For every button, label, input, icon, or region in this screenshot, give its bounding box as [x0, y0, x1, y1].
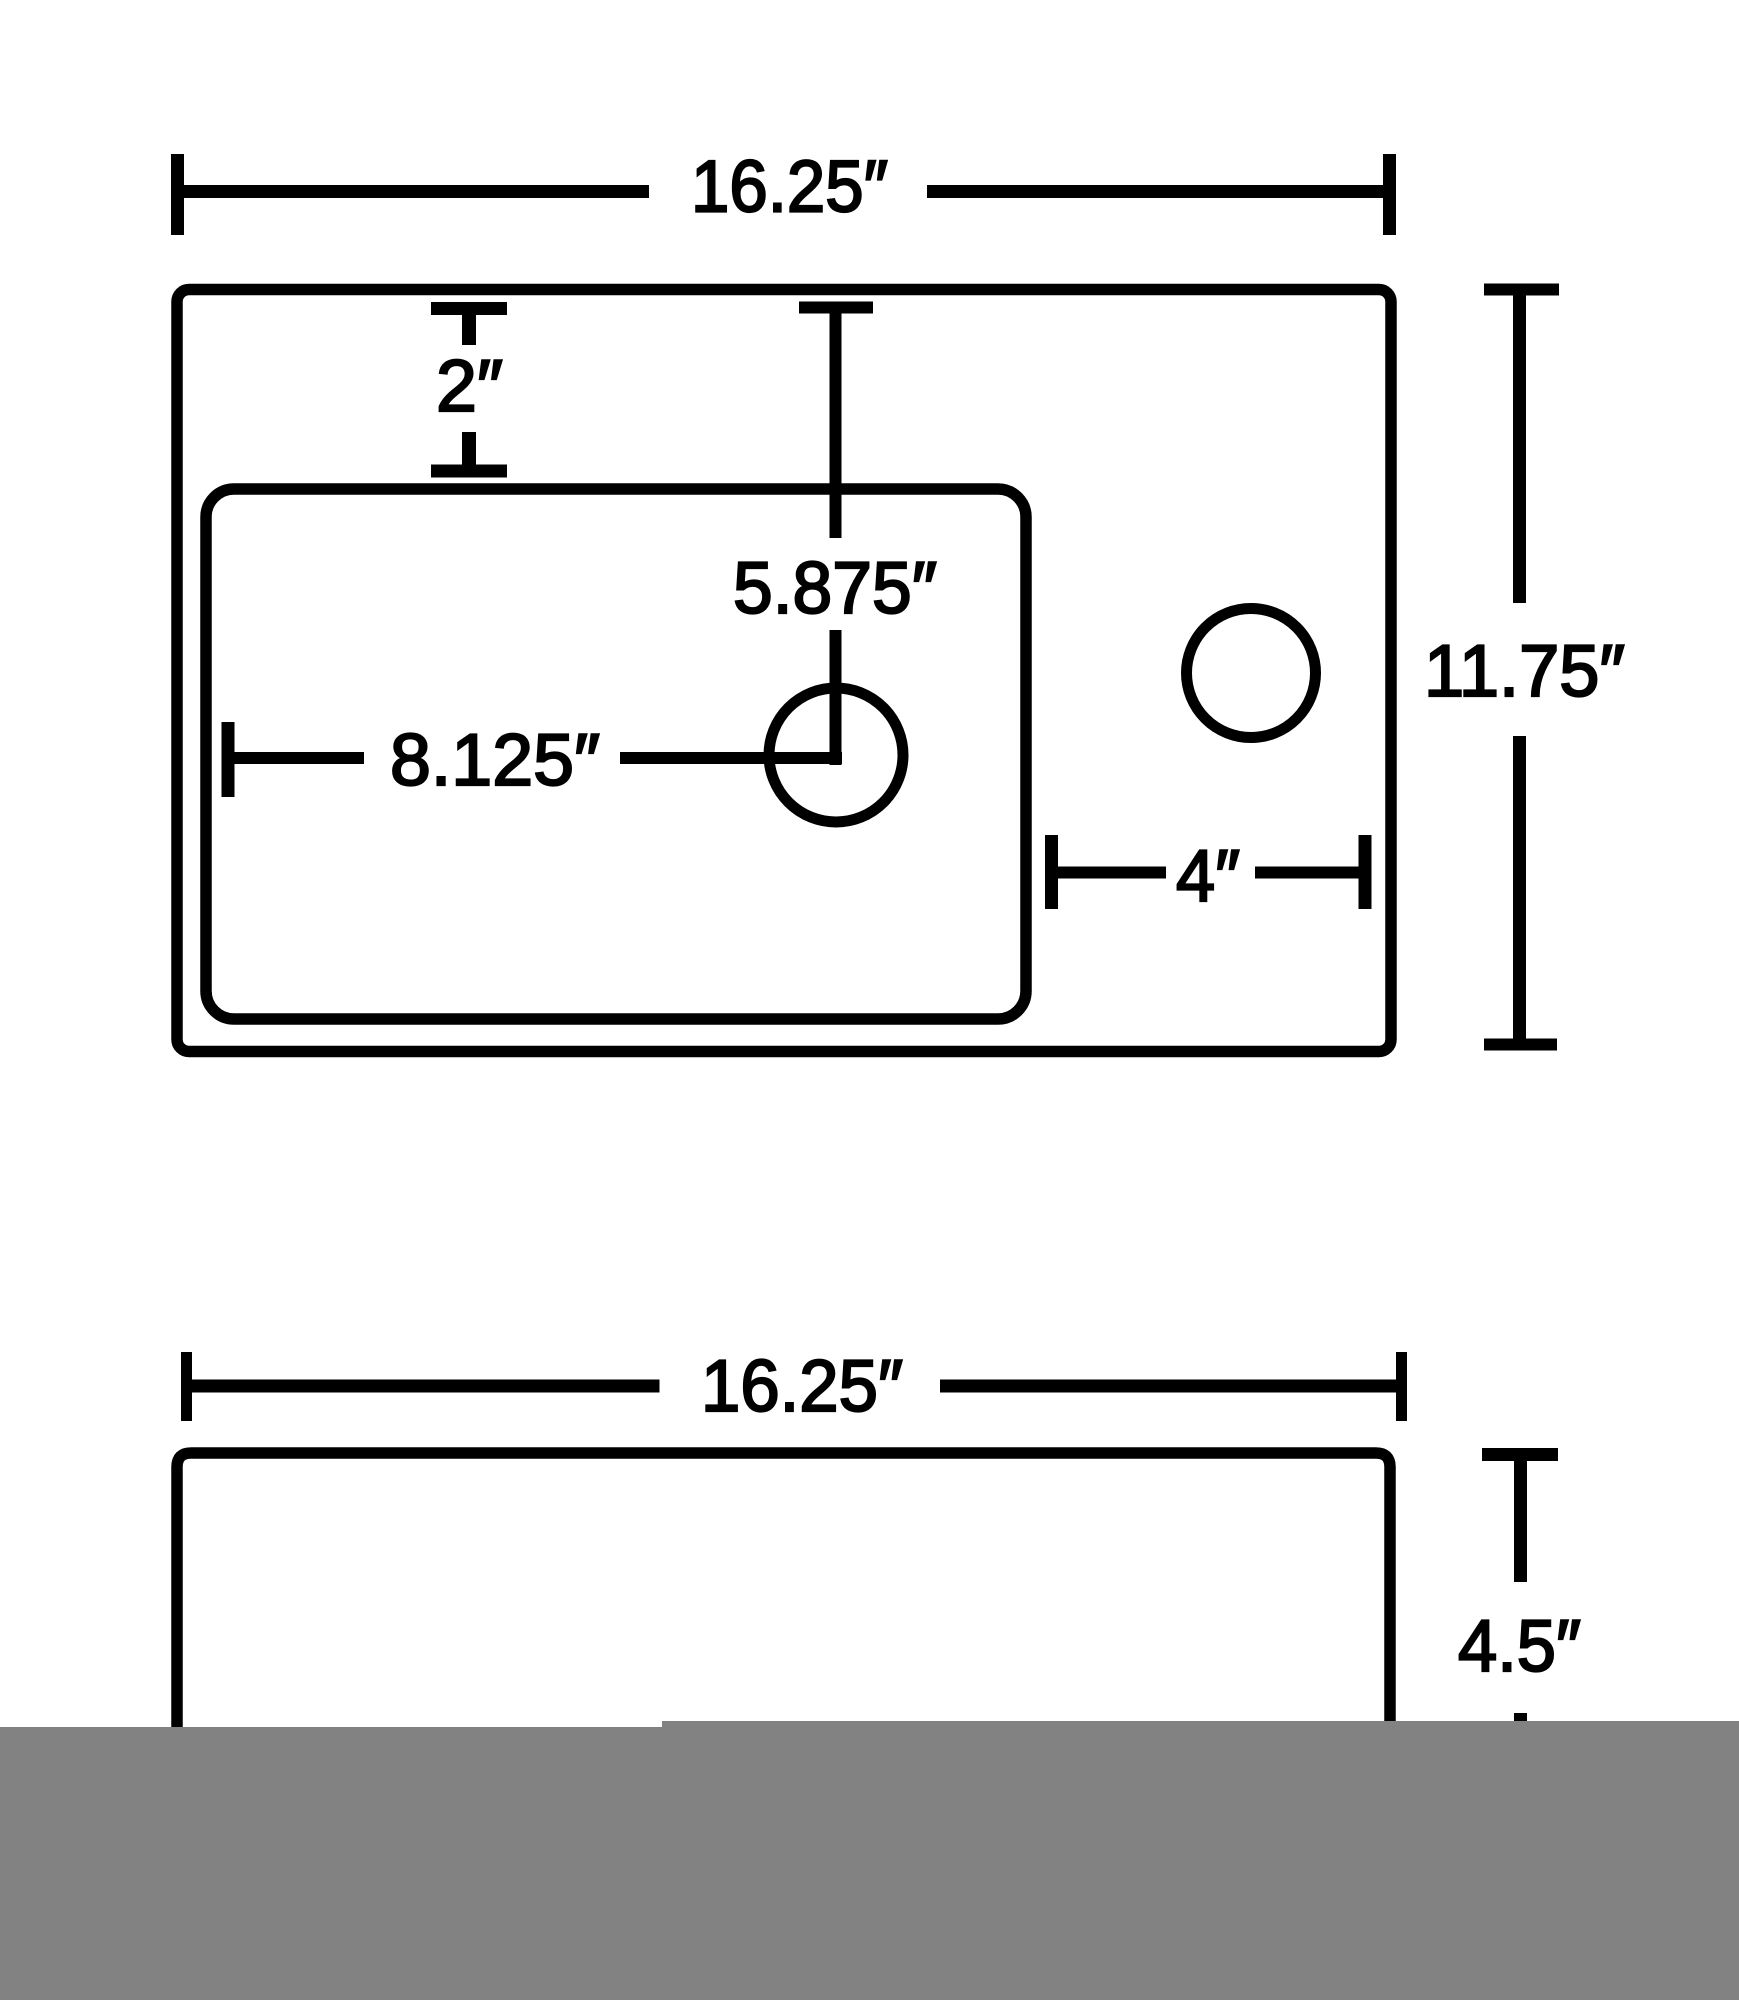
dimension 8.125in: line left segment [228, 752, 364, 764]
dimension 8.125in: line right segment to hole center [620, 752, 842, 764]
outer sink rim rectangle (top view) [177, 290, 1391, 1052]
svg-text:8.125″: 8.125″ [390, 720, 600, 801]
svg-text:2″: 2″ [436, 346, 503, 427]
dimension 11.75in: lower vertical line [1513, 736, 1526, 1045]
dimension 2in: bottom stub [462, 432, 476, 471]
label 11.75in [1424, 631, 1625, 712]
dimension 8.125in: left tick [222, 722, 235, 797]
dimension 16.25in top: left tick [171, 154, 184, 235]
dimension 5.875in: lower vertical line to hole center [830, 630, 842, 765]
dimension 11.75in: top tick bar [1484, 284, 1559, 296]
gray counter band left section [0, 1727, 662, 2000]
label 2in [436, 346, 503, 427]
label 4.5in [1458, 1606, 1581, 1687]
label 4in [1176, 836, 1240, 917]
dimension 2in: top tick bar [431, 302, 507, 315]
label 5.875in [733, 548, 937, 629]
svg-text:5.875″: 5.875″ [733, 548, 937, 629]
front view sink body rectangle [177, 1453, 1390, 1790]
dimension 4.5in: upper vertical line [1514, 1455, 1527, 1583]
dimension 16.25in bottom: left tick [181, 1352, 192, 1421]
gray counter band right section [662, 1721, 1739, 2000]
label 8.125in [390, 720, 600, 801]
faucet hole circle in basin [769, 688, 903, 822]
svg-text:16.25″: 16.25″ [701, 1346, 903, 1427]
dimension 4in: line right segment [1255, 867, 1365, 879]
label 16.25in top [691, 147, 888, 228]
dimension 4in: left tick [1045, 835, 1058, 909]
label 16.25in bottom [701, 1346, 903, 1427]
dimension 16.25in bottom: line right segment [940, 1380, 1402, 1393]
dimension 16.25in top: line right segment [927, 185, 1390, 198]
dimension 2in: bottom tick bar [431, 465, 507, 478]
faucet hole circle right deck [1187, 609, 1316, 738]
dimension 11.75in: bottom tick bar [1484, 1039, 1557, 1051]
dimension 16.25in top: right tick [1383, 154, 1396, 235]
svg-text:4.5″: 4.5″ [1458, 1606, 1581, 1687]
svg-text:11.75″: 11.75″ [1424, 631, 1625, 712]
dimension 2in: top stub [462, 309, 476, 346]
dimension 16.25in bottom: line left segment [187, 1380, 660, 1393]
dimension 11.75in: upper vertical line [1513, 290, 1526, 604]
svg-text:16.25″: 16.25″ [691, 147, 888, 228]
dimension 16.25in top: line left segment [178, 185, 650, 198]
svg-text:4″: 4″ [1176, 836, 1240, 917]
inner basin rounded rectangle [206, 489, 1026, 1019]
dimension 5.875in: top tick bar [799, 302, 873, 314]
dimension 5.875in: upper vertical line [830, 308, 842, 539]
dimension 4.5in: lower stub [1514, 1713, 1527, 1727]
dimension 4.5in: top tick bar [1482, 1448, 1558, 1461]
dimension 16.25in bottom: right tick [1396, 1352, 1407, 1421]
dimension 4in: right tick [1359, 835, 1372, 909]
dimension 4in: line left segment [1052, 867, 1167, 879]
